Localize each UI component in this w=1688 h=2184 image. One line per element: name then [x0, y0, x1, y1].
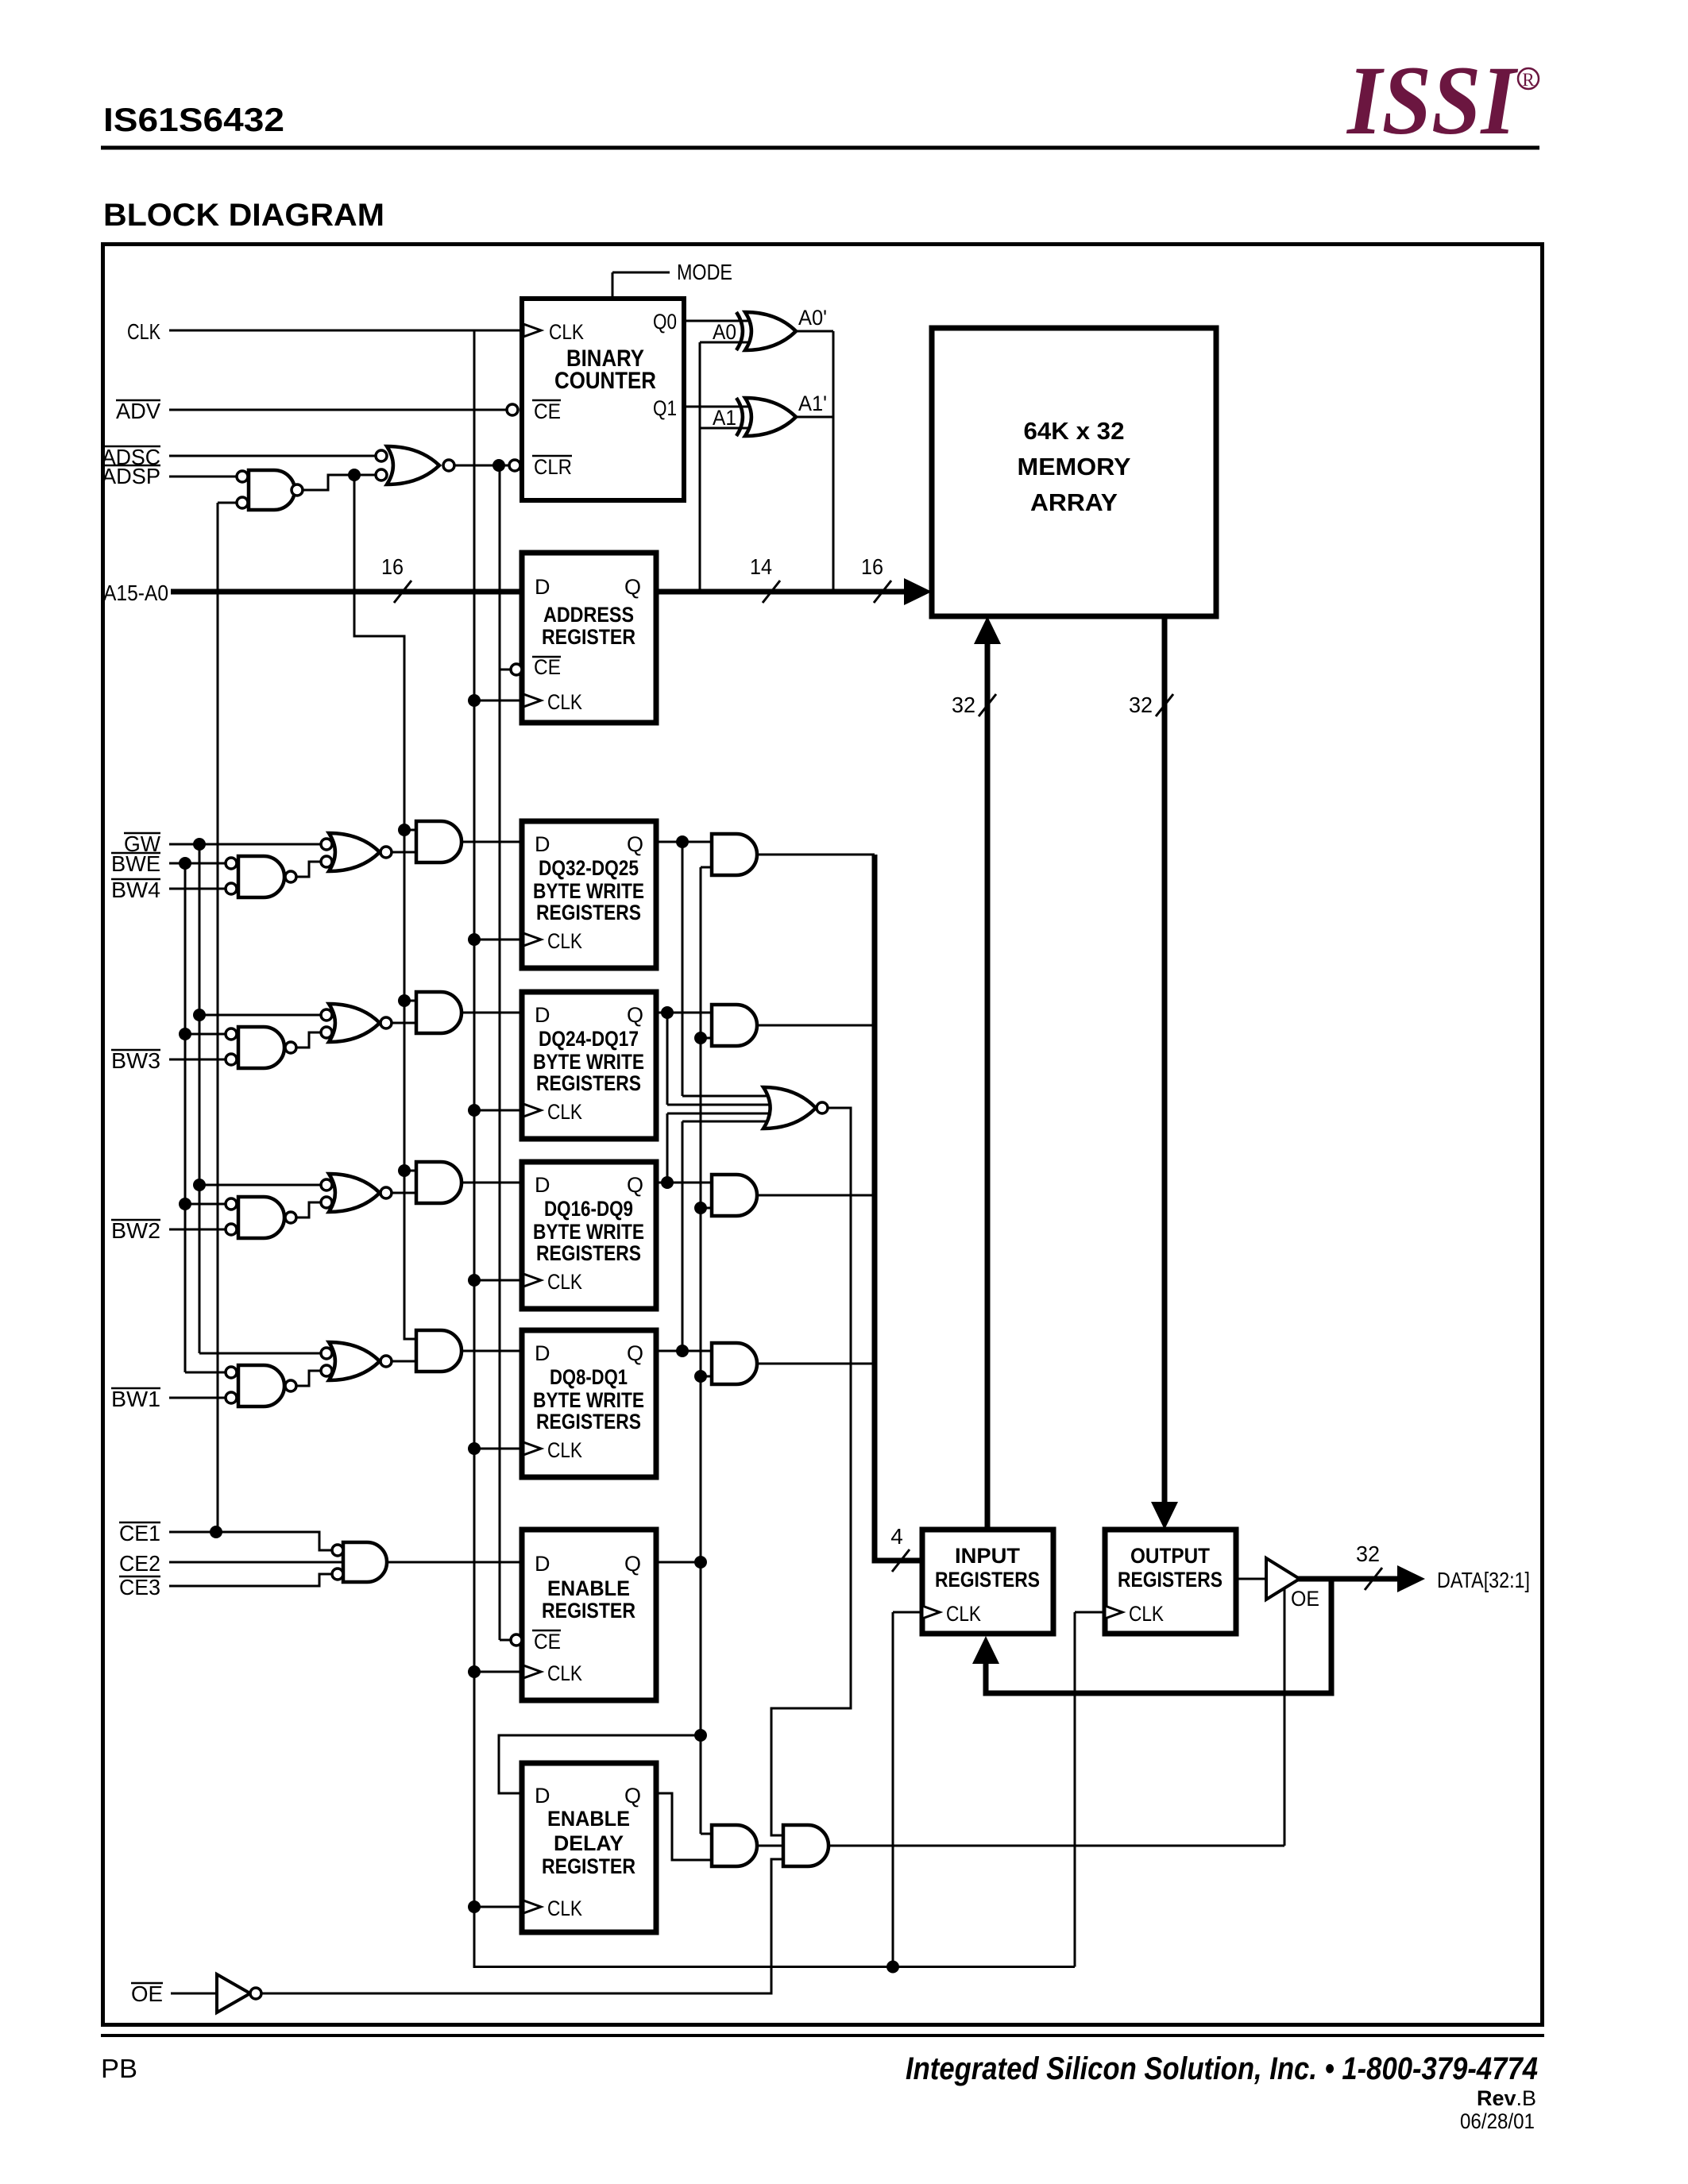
wire G13 output to register D — [462, 1182, 522, 1184]
wire register U4 Q output — [656, 841, 712, 843]
svg-text:Integrated Silicon Solution, I: Integrated Silicon Solution, Inc. • 1-80… — [906, 2051, 1538, 2086]
svg-text:CLK: CLK — [1129, 1602, 1164, 1626]
svg-text:D: D — [535, 832, 550, 856]
binary counter U1 — [522, 299, 684, 500]
svg-text:CE2: CE2 — [119, 1551, 160, 1576]
svg-text:REGISTERS: REGISTERS — [935, 1568, 1040, 1592]
svg-text:ENABLE: ENABLE — [547, 1576, 630, 1600]
svg-text:REGISTER: REGISTER — [542, 1854, 635, 1878]
nand gate G1 ADSP+CE1 — [249, 470, 295, 510]
svg-text:DQ24-DQ17: DQ24-DQ17 — [539, 1027, 639, 1051]
node enable delay D junction — [694, 1729, 707, 1742]
enable delay register U9 — [522, 1763, 656, 1932]
svg-text:CLK: CLK — [547, 929, 582, 953]
wire CLR net vertical to CE pins — [499, 465, 501, 1640]
svg-text:BYTE WRITE: BYTE WRITE — [533, 1050, 644, 1074]
wire G4 output to G8 input — [296, 1032, 321, 1048]
address register U2 — [522, 553, 656, 723]
wire G2 output to counter CLR — [454, 465, 509, 467]
bus 32 input registers to memory — [985, 639, 991, 1530]
xor gate X2 — [745, 398, 796, 436]
svg-text:DATA[32:1]: DATA[32:1] — [1437, 1568, 1530, 1592]
wire counter Q1 to X2 — [684, 406, 761, 408]
input registers U10 — [922, 1530, 1053, 1634]
wire G3 output to G7 input — [296, 862, 321, 877]
bus write-back to input registers — [986, 1579, 1331, 1693]
wire XOR outputs to address bus — [795, 330, 833, 333]
svg-text:REGISTER: REGISTER — [542, 1599, 635, 1623]
bus DATA output — [1298, 1576, 1400, 1582]
svg-text:16: 16 — [381, 554, 404, 579]
byte write register U7 — [522, 1330, 656, 1477]
svg-text:06/28/01: 06/28/01 — [1460, 2109, 1535, 2133]
wire G16 output to enable register D — [387, 1561, 522, 1564]
wire output registers Q to buffer — [1236, 1578, 1266, 1580]
svg-text:A0': A0' — [798, 306, 827, 330]
svg-text:CLR: CLR — [534, 455, 572, 479]
svg-text:ADDRESS: ADDRESS — [543, 603, 634, 627]
nor gate G2 ADSC+G1 — [387, 446, 439, 484]
wire enable delay register D loop — [499, 1735, 701, 1793]
node CLR junction — [492, 459, 505, 472]
svg-text:D: D — [535, 575, 550, 599]
wire G1 lower input from CE1 — [218, 502, 237, 504]
output buffer U12 — [1266, 1558, 1300, 1599]
svg-text:CLK: CLK — [547, 690, 582, 714]
wire OE to G18 input — [261, 1859, 783, 1993]
wire enable delay register Q — [656, 1793, 712, 1860]
diagram frame — [103, 245, 1543, 2025]
nand gate G5 BWE+BW2 — [238, 1197, 284, 1238]
svg-text:BWE: BWE — [111, 851, 160, 876]
wire G18 output to 4-bit bus — [757, 1363, 875, 1365]
and gate G14 write clock — [416, 1330, 462, 1372]
wire write-gate vertical to byte write AND gates — [354, 475, 416, 1339]
svg-text:A15-A0: A15-A0 — [103, 581, 168, 605]
svg-text:CLK: CLK — [547, 1438, 582, 1462]
wire G16 output to 4-bit bus — [757, 1024, 875, 1027]
svg-text:CE: CE — [534, 399, 561, 423]
svg-text:BYTE WRITE: BYTE WRITE — [533, 879, 644, 903]
node BWE vertical — [179, 857, 191, 870]
svg-text:CLK: CLK — [547, 1270, 582, 1294]
inverter G19 OE — [217, 1974, 250, 2012]
wire CLK vertical net — [473, 330, 476, 1968]
nand gate G4 BWE+BW3 — [238, 1027, 284, 1068]
node enable register Q junction — [694, 1556, 707, 1569]
nor gate G9 GW gating — [329, 1174, 380, 1212]
wire G15 output to 4-bit bus — [757, 854, 875, 856]
wire CLK to output registers CLK — [1074, 1612, 1076, 1967]
node Q1 tap to nor G15 — [676, 835, 689, 848]
wire G7 output to G11 — [392, 851, 416, 854]
svg-text:Q: Q — [624, 1784, 641, 1808]
svg-text:Q: Q — [627, 1173, 643, 1197]
svg-text:BYTE WRITE: BYTE WRITE — [533, 1220, 644, 1244]
svg-text:DQ32-DQ25: DQ32-DQ25 — [539, 856, 639, 880]
bus 4-bit to input registers — [875, 855, 922, 1561]
svg-text:CLK: CLK — [127, 319, 160, 344]
svg-text:MEMORY: MEMORY — [1018, 453, 1131, 480]
byte write register U4 — [522, 821, 656, 968]
wire register U7 Q output — [656, 1350, 712, 1352]
node CLK to address register CLK — [468, 694, 481, 707]
wire G5 output to G9 input — [296, 1202, 321, 1217]
svg-text:ISSI: ISSI — [1346, 46, 1518, 155]
wire G11 output to register D — [462, 841, 522, 843]
wire enable net vertical — [700, 867, 702, 1834]
node GW vertical — [193, 838, 206, 851]
and gate G15 data gate — [712, 834, 757, 875]
svg-text:32: 32 — [1129, 693, 1153, 717]
svg-text:14: 14 — [750, 554, 772, 579]
input MODE — [612, 272, 614, 299]
svg-text:32: 32 — [1356, 1542, 1380, 1566]
wire G10 output to G14 — [392, 1360, 416, 1363]
wire G1 output to G2 input — [303, 475, 376, 490]
svg-text:CE1: CE1 — [119, 1521, 160, 1545]
wire register U6 Q output — [656, 1182, 712, 1184]
svg-text:CLK: CLK — [549, 320, 584, 344]
wire G12 output to register D — [462, 1012, 522, 1014]
svg-text:Q: Q — [627, 832, 643, 856]
enable register U8 — [522, 1530, 656, 1700]
svg-text:REGISTERS: REGISTERS — [536, 1241, 641, 1265]
svg-text:16: 16 — [861, 554, 883, 579]
svg-text:A1: A1 — [713, 406, 736, 430]
svg-text:4: 4 — [890, 1524, 903, 1549]
svg-text:Q: Q — [627, 1341, 643, 1365]
and gate G13 write clock — [416, 1162, 462, 1203]
node write-gate junction — [348, 469, 361, 481]
svg-text:OE: OE — [1291, 1587, 1319, 1611]
wire G8 output to G12 — [392, 1022, 416, 1024]
nor gate G15 4-input write detect — [763, 1087, 816, 1129]
wire counter Q0 to X1 — [684, 320, 761, 322]
svg-text:OE: OE — [131, 1981, 163, 2006]
and gate G16 data gate — [712, 1005, 757, 1046]
wire G14 output to register D — [462, 1350, 522, 1352]
nand gate G6 BWE+BW1 — [238, 1365, 284, 1406]
svg-text:DELAY: DELAY — [554, 1831, 624, 1855]
svg-text:COUNTER: COUNTER — [554, 368, 656, 394]
node CE1 junction — [210, 1526, 222, 1538]
wire G15 output — [771, 1108, 851, 1835]
svg-text:REGISTER: REGISTER — [542, 625, 635, 649]
svg-text:CLK: CLK — [547, 1100, 582, 1124]
svg-text:32: 32 — [952, 693, 975, 717]
svg-text:Rev.B: Rev.B — [1477, 2086, 1536, 2110]
svg-text:REGISTERS: REGISTERS — [536, 1071, 641, 1095]
and gate G11 write clock — [416, 821, 462, 862]
node CLK to byte write registers CLK — [468, 933, 481, 946]
svg-text:ADV: ADV — [116, 399, 160, 423]
svg-text:Q1: Q1 — [653, 396, 677, 420]
svg-text:Q: Q — [627, 1003, 643, 1027]
svg-text:D: D — [535, 1552, 550, 1576]
and gate G18 data gate — [712, 1343, 757, 1384]
wire G17 output to 4-bit bus — [757, 1194, 875, 1197]
svg-text:ARRAY: ARRAY — [1030, 488, 1118, 516]
svg-text:INPUT: INPUT — [955, 1544, 1021, 1568]
svg-text:ENABLE: ENABLE — [547, 1807, 630, 1831]
wire A0 A1 taps from address bus — [699, 342, 701, 592]
svg-text:REGISTERS: REGISTERS — [536, 1410, 641, 1433]
svg-text:D: D — [535, 1003, 550, 1027]
wire G9 output to G13 — [392, 1192, 416, 1194]
node Q4 tap to nor G15 — [676, 1345, 689, 1357]
svg-text:Q0: Q0 — [653, 310, 677, 334]
node Q2 tap to nor G15 — [661, 1006, 674, 1019]
wire G6 output to G10 input — [296, 1371, 321, 1386]
wire enable register Q — [656, 1561, 701, 1564]
svg-text:CLK: CLK — [547, 1897, 582, 1920]
node CLK to input registers CLK — [886, 1961, 899, 1974]
svg-text:D: D — [535, 1173, 550, 1197]
svg-text:DQ16-DQ9: DQ16-DQ9 — [544, 1197, 633, 1221]
svg-text:PB: PB — [101, 2054, 137, 2083]
page footer — [101, 2034, 1544, 2037]
svg-text:Q: Q — [624, 575, 641, 599]
svg-text:BYTE WRITE: BYTE WRITE — [533, 1388, 644, 1412]
and gate G17 output enable a — [712, 1825, 757, 1866]
byte write register U6 — [522, 1162, 656, 1309]
node Q3 tap to nor G15 — [661, 1176, 674, 1189]
svg-text:CE: CE — [534, 1630, 561, 1653]
output registers U11 — [1105, 1530, 1236, 1634]
and gate G18 output enable b — [783, 1825, 829, 1866]
svg-text:BW3: BW3 — [111, 1048, 160, 1073]
svg-text:BLOCK DIAGRAM: BLOCK DIAGRAM — [103, 198, 384, 233]
wire G17 output to G18 — [757, 1845, 783, 1847]
and gate G12 write clock — [416, 992, 462, 1033]
xor gate X1 — [745, 312, 796, 350]
svg-text:CE: CE — [534, 655, 561, 679]
svg-text:IS61S6432: IS61S6432 — [103, 101, 284, 138]
svg-text:MODE: MODE — [677, 260, 732, 284]
svg-text:A0: A0 — [713, 320, 736, 344]
svg-text:REGISTERS: REGISTERS — [1118, 1568, 1223, 1592]
wire register U5 Q output — [656, 1012, 712, 1014]
nor gate G7 GW gating — [329, 833, 380, 871]
wire G18 output to output buffer OE — [829, 1845, 1284, 1847]
svg-text:DQ8-DQ1: DQ8-DQ1 — [550, 1365, 628, 1389]
and gate G16 chip enable — [343, 1542, 387, 1582]
svg-text:CLK: CLK — [547, 1661, 582, 1685]
svg-text:CLK: CLK — [946, 1602, 981, 1626]
nor gate G8 GW gating — [329, 1004, 380, 1042]
bus 32 memory to output registers — [1162, 616, 1168, 1505]
svg-text:BW4: BW4 — [111, 878, 160, 902]
svg-text:D: D — [535, 1784, 550, 1808]
svg-text:R: R — [1522, 70, 1535, 90]
nor gate G10 GW gating — [329, 1342, 380, 1380]
svg-text:ADSP: ADSP — [102, 464, 160, 488]
svg-text:REGISTERS: REGISTERS — [536, 901, 641, 924]
svg-text:D: D — [535, 1341, 550, 1365]
svg-text:OUTPUT: OUTPUT — [1130, 1544, 1210, 1568]
nand gate G3 BWE+BW4 — [238, 856, 284, 897]
svg-text:64K x 32: 64K x 32 — [1024, 417, 1125, 445]
svg-text:Q: Q — [624, 1552, 641, 1576]
svg-text:CE3: CE3 — [119, 1575, 160, 1599]
byte write register U5 — [522, 992, 656, 1139]
svg-text:BW2: BW2 — [111, 1218, 160, 1243]
node CLK to enable register CLK — [468, 1665, 481, 1678]
memory array U3 — [932, 328, 1216, 616]
node CLK to enable delay register CLK — [468, 1900, 481, 1913]
svg-text:BW1: BW1 — [111, 1387, 160, 1411]
and gate G17 data gate — [712, 1175, 757, 1216]
svg-text:A1': A1' — [798, 392, 827, 415]
